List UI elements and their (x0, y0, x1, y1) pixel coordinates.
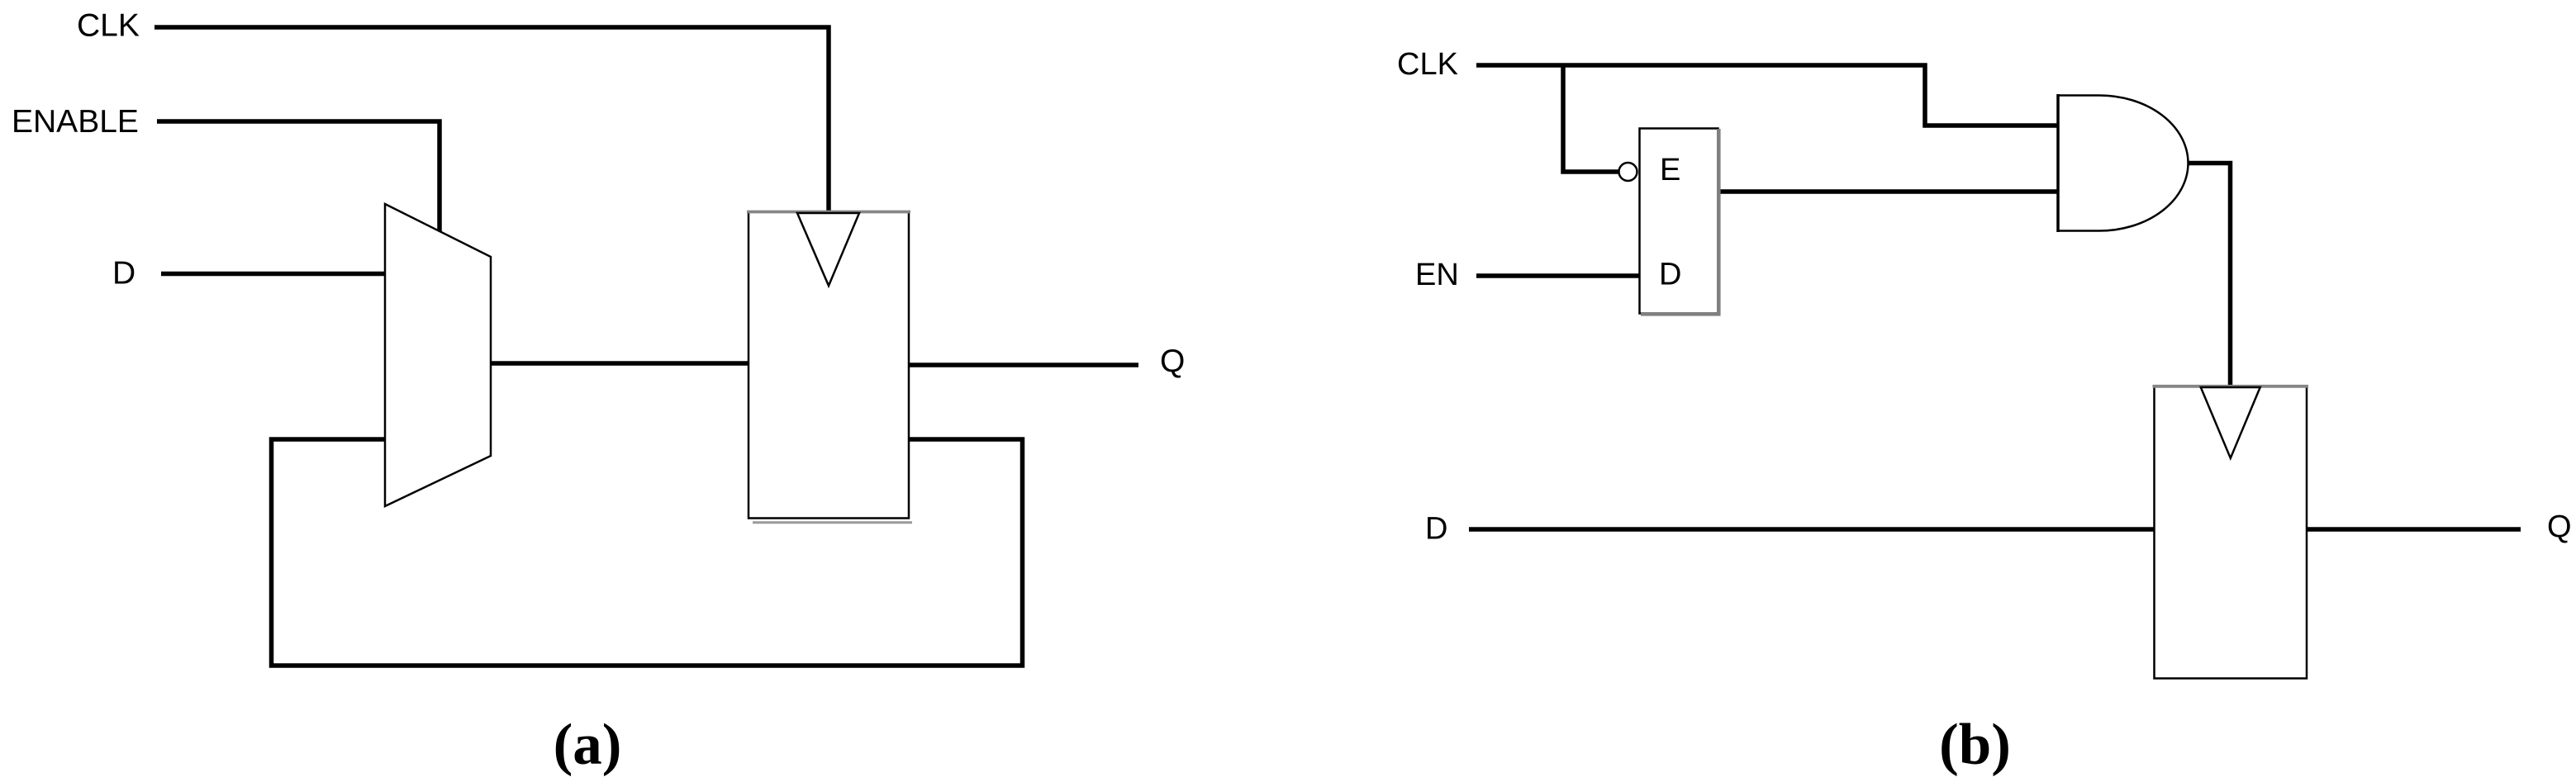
svg-text:Q: Q (1160, 344, 1185, 379)
wire latch output to AND input B (1720, 189, 2058, 194)
flip-flop U5 top edge (gray) (2153, 385, 2309, 388)
svg-text:D: D (1659, 258, 1681, 292)
multiplexer U1 (385, 204, 491, 506)
flip-flop U5 clock triangle (2201, 387, 2260, 458)
wire EN to latch D input (1476, 273, 1639, 278)
wire CLK branch down to latch enable bubble (1563, 65, 1618, 172)
wire D (b) to flip-flop input (1469, 527, 2154, 532)
wire mux output to flip-flop D input (491, 361, 749, 366)
svg-text:D: D (1425, 512, 1447, 547)
flip-flop U2 body (749, 212, 909, 519)
latch U3 bottom edge (gray) (1641, 312, 1721, 315)
svg-text:CLK: CLK (77, 8, 140, 44)
flip-flop U2 shadow (753, 521, 912, 524)
svg-text:(b): (b) (1939, 713, 2011, 777)
wire feedback loop Q to mux input 1 (272, 439, 1023, 666)
svg-text:EN: EN (1415, 258, 1459, 292)
latch U3 body (1640, 129, 1718, 314)
AND gate U4 input edge (2056, 94, 2060, 232)
svg-text:ENABLE: ENABLE (12, 104, 139, 140)
svg-text:(a): (a) (554, 713, 622, 777)
wire ENABLE: horizontal then down into mux select (157, 121, 440, 232)
wire CLK (a): horizontal then down to flip-flop clock (154, 27, 829, 211)
wire Q output (b) (2307, 527, 2521, 532)
svg-text:CLK: CLK (1397, 47, 1458, 82)
wire D (a) to mux input 0 (161, 272, 385, 277)
AND gate U4 body (2058, 96, 2189, 231)
wire AND output down to flip-flop clock (2189, 164, 2231, 386)
latch U3 right edge (gray) (1717, 129, 1720, 315)
svg-text:Q: Q (2547, 509, 2572, 544)
flip-flop U5 body (2155, 386, 2307, 679)
wire Q output (a) (909, 363, 1138, 367)
svg-text:D: D (112, 256, 135, 291)
wire CLK (b): horizontal, step down, to AND input A (1476, 65, 2058, 126)
svg-text:E: E (1660, 153, 1680, 187)
inverter bubble at latch E input (1619, 163, 1637, 181)
flip-flop U2 top edge (gray) (747, 211, 910, 214)
flip-flop U2 clock triangle (797, 213, 859, 286)
